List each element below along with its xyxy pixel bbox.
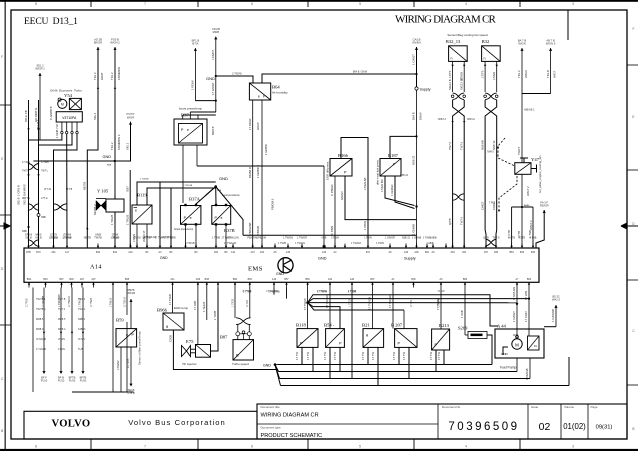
svg-text:1 TRL/B: 1 TRL/B <box>125 215 129 225</box>
svg-text:1 TW/B: 1 TW/B <box>212 237 220 240</box>
svg-text:GND: GND <box>219 176 228 181</box>
svg-text:A45: A45 <box>322 251 327 254</box>
svg-text:17 TW/B: 17 TW/B <box>168 294 172 305</box>
svg-text:sol_valve_engine_cooling_fan: sol_valve_engine_cooling_fan <box>538 155 542 193</box>
svg-text:17 GN: 17 GN <box>247 300 249 307</box>
svg-text:17 TW/LAB: 17 TW/LAB <box>144 236 157 239</box>
wire Y54 pin4 to ECU pin <box>54 134 78 248</box>
svg-text:PB/GRAB: PB/GRAB <box>248 222 252 235</box>
svg-text:17 TW: 17 TW <box>333 351 337 360</box>
svg-text:LT/GN: LT/GN <box>78 338 85 341</box>
svg-text:17 TW/B: 17 TW/B <box>91 298 93 307</box>
svg-text:GN/W: GN/W <box>256 122 260 130</box>
svg-text:TW7 6: TW7 6 <box>459 141 463 150</box>
svg-text:LT/TS: LT/TS <box>480 70 484 78</box>
wire column x130 off page <box>129 122 132 125</box>
wire column x195 off page arrow <box>194 48 197 51</box>
svg-text:B07: B07 <box>370 278 375 281</box>
svg-text:n: n <box>451 57 453 61</box>
svg-text:3: 3 <box>572 444 574 448</box>
twist symbol B32 pair <box>485 93 497 99</box>
svg-text:N3B 22: N3B 22 <box>400 174 409 177</box>
twisted pair symbols mid pair <box>53 204 67 210</box>
svg-text:B7A: B7A <box>36 251 41 254</box>
wire S209 connections <box>464 288 466 336</box>
wire B87 shield to box <box>237 336 239 340</box>
svg-text:7: 7 <box>144 444 146 448</box>
wire B64 supply to Supply node <box>262 74 417 87</box>
svg-text:e: e <box>126 333 128 337</box>
svg-text:e: e <box>187 128 189 132</box>
svg-text:L7T G: L7T G <box>41 197 48 200</box>
wire hub horizontal to fuel pump <box>308 302 517 304</box>
wire B32 pins down <box>484 61 486 92</box>
svg-text:17 CA/N: 17 CA/N <box>524 311 528 322</box>
component B59 off page arrow up <box>129 299 132 302</box>
svg-text:C50B: C50B <box>169 335 173 342</box>
component B32 box <box>482 46 501 62</box>
svg-text:Volvo Bus Corporation: Volvo Bus Corporation <box>128 418 226 427</box>
svg-text:boost press/temp: boost press/temp <box>222 194 240 197</box>
wire bottom right bracket <box>568 357 570 386</box>
svg-text:TW7 0: TW7 0 <box>58 308 66 311</box>
svg-text:1 CTB: 1 CTB <box>508 237 515 240</box>
svg-text:A46: A46 <box>404 251 409 254</box>
svg-text:N6B 13: N6B 13 <box>438 118 447 121</box>
wire pass-through column x352 <box>351 288 353 379</box>
svg-text:B57: B57 <box>284 278 289 281</box>
off-page arrow wire SE1 <box>38 73 41 76</box>
svg-text:n: n <box>484 57 486 61</box>
svg-text:1 AB/B: 1 AB/B <box>429 237 437 240</box>
svg-text:N3B 22: N3B 22 <box>402 237 411 240</box>
component Y47 solenoid tbar <box>520 158 528 163</box>
svg-text:MR/LB: MR/LB <box>127 291 135 295</box>
svg-text:02: 02 <box>539 421 551 433</box>
svg-text:Supply: Supply <box>420 88 431 92</box>
svg-text:BT/A: BT/A <box>192 42 198 46</box>
svg-text:e: e <box>135 209 137 213</box>
svg-text:Sensor oil filter press/Temp: Sensor oil filter press/Temp <box>138 331 142 365</box>
component S209 switch <box>468 332 487 339</box>
svg-text:TW/TB: TW/TB <box>94 237 102 240</box>
svg-text:1 TW/LB: 1 TW/LB <box>185 242 195 245</box>
svg-text:6: 6 <box>251 444 253 448</box>
svg-text:GND: GND <box>263 364 271 368</box>
svg-text:1 TW/GN: 1 TW/GN <box>295 242 305 245</box>
svg-text:Turbo speed: Turbo speed <box>232 362 249 366</box>
component B213 box <box>432 329 450 350</box>
svg-text:LT/GN6: LT/GN6 <box>63 233 72 236</box>
svg-text:B06: B06 <box>527 278 532 281</box>
svg-text:B66: B66 <box>463 278 468 281</box>
svg-text:RD/GR: RD/GR <box>540 204 549 208</box>
svg-text:C 7TGB: C 7TGB <box>243 290 252 293</box>
wire B37B pins <box>215 224 217 248</box>
svg-text:BK/GR: BK/GR <box>94 41 102 45</box>
left centre fold arrow <box>0 223 10 229</box>
component B119 box <box>132 205 152 224</box>
component A44 motor <box>512 339 522 349</box>
sheet bottom border bar <box>0 449 638 451</box>
svg-text:1 CA/GT: 1 CA/GT <box>412 54 416 65</box>
ECU top pin stubs <box>28 244 30 249</box>
wire column x206 <box>206 288 208 321</box>
wire hub branch to B54 pin <box>308 303 340 329</box>
wire column x98 speed signal <box>96 47 99 50</box>
svg-text:1 W/B: 1 W/B <box>460 310 464 318</box>
svg-text:after treat fuel press.: after treat fuel press. <box>376 159 380 185</box>
component E75 injector valve <box>182 346 191 357</box>
svg-text:B53: B53 <box>509 251 514 254</box>
svg-text:WIRING DIAGRAM CR: WIRING DIAGRAM CR <box>395 14 497 26</box>
svg-text:1 TW/B: 1 TW/B <box>278 242 286 245</box>
wire Y54 pin2 to ECU pin <box>66 134 68 248</box>
svg-text:B37A: B37A <box>189 197 201 202</box>
svg-text:LT/GN: LT/GN <box>50 233 57 236</box>
bottom left wire columns <box>43 288 45 372</box>
svg-text:ABB6: ABB6 <box>524 204 530 207</box>
svg-text:TW/7B 0: TW/7B 0 <box>36 308 46 311</box>
svg-text:SIG 2: SIG 2 <box>93 112 97 120</box>
svg-text:B63: B63 <box>43 278 48 281</box>
svg-text:17 GN: 17 GN <box>58 348 65 351</box>
svg-text:B: B <box>632 427 634 431</box>
svg-text:1 TRL/B: 1 TRL/B <box>111 237 120 240</box>
wire horizontal mid link <box>243 234 417 236</box>
svg-text:B54 -: B54 - <box>324 323 335 328</box>
svg-text:W/GN: W/GN <box>518 42 525 46</box>
svg-text:C PB/GR: C PB/GR <box>330 184 334 196</box>
svg-text:70396509: 70396509 <box>448 421 519 433</box>
component B21 box <box>363 329 384 348</box>
svg-text:MRB 0: MRB 0 <box>36 328 44 331</box>
svg-text:1 TW/GN: 1 TW/GN <box>283 237 293 240</box>
svg-text:S0/7: S0/7 <box>125 186 129 192</box>
wire B119 bottom pins to ECU <box>136 224 138 248</box>
svg-text:EECU D13_1: EECU D13_1 <box>24 16 78 27</box>
svg-text:B213: B213 <box>439 323 450 328</box>
svg-text:FU10: FU10 <box>58 379 65 383</box>
ECU connector box A14 EMS <box>24 248 539 282</box>
svg-text:NE/TB: NE/TB <box>83 182 87 190</box>
svg-text:LT/GN4B: LT/GN4B <box>36 338 46 341</box>
svg-text:4: 4 <box>465 2 467 6</box>
svg-text:17 GN/GT: 17 GN/GT <box>211 82 215 95</box>
svg-text:1 TW/B: 1 TW/B <box>213 311 217 320</box>
twist symbol right pair above ECU <box>486 239 497 245</box>
component Y54 connector box <box>56 112 82 122</box>
svg-text:TRL 2: TRL 2 <box>93 72 97 80</box>
svg-text:A10: A10 <box>231 251 236 254</box>
svg-text:GN/B: GN/B <box>95 233 101 236</box>
wire Y47 dashed branch upper <box>498 138 515 166</box>
svg-text:1 PB/N: 1 PB/N <box>364 237 372 240</box>
bottom horizontal y392 <box>72 391 134 393</box>
svg-text:Y54: Y54 <box>64 93 73 98</box>
GND node left horizontal <box>34 160 115 162</box>
svg-text:FU30: FU30 <box>80 379 87 383</box>
svg-text:LT/TS: LT/TS <box>448 70 452 78</box>
component B118 box <box>297 329 318 348</box>
wire B187 top pin to supply wire <box>390 136 417 158</box>
svg-text:8: 8 <box>35 2 37 6</box>
wire GND junction horizontal to B64 <box>216 76 253 83</box>
svg-text:SIG 2: SIG 2 <box>126 142 130 150</box>
svg-text:1 GN/AB: 1 GN/AB <box>412 237 422 240</box>
svg-text:B87: B87 <box>220 335 228 340</box>
svg-text:S4B 7L: S4B 7L <box>78 328 87 331</box>
svg-text:1 TW/GR4B: 1 TW/GR4B <box>59 294 61 307</box>
svg-text:1 7TGB: 1 7TGB <box>232 299 234 307</box>
component B32_13 box <box>449 46 468 62</box>
svg-text:17 TW: 17 TW <box>429 351 433 360</box>
component Y105 valve <box>96 201 106 211</box>
wire B32_13 pins down <box>452 61 454 92</box>
bottom zone dividers <box>90 439 92 451</box>
svg-text:Y 105: Y 105 <box>97 189 109 194</box>
svg-text:1 7TGB: 1 7TGB <box>349 299 351 307</box>
wire pin 286 into bus <box>286 288 288 299</box>
svg-text:17 GN4B: 17 GN4B <box>36 348 46 351</box>
svg-text:1 TW/GR: 1 TW/GR <box>351 242 361 245</box>
svg-text:8: 8 <box>35 444 37 448</box>
svg-text:17 W/GNB: 17 W/GNB <box>43 295 45 307</box>
off page arrow B5 right <box>554 305 557 308</box>
svg-text:TRL 2: TRL 2 <box>110 72 114 80</box>
wire Y54 pin1 to ECU pin A61 <box>29 134 62 248</box>
svg-text:1 GMBR 6: 1 GMBR 6 <box>256 164 260 178</box>
svg-text:GND: GND <box>276 272 284 276</box>
svg-text:17 TW: 17 TW <box>295 351 299 360</box>
svg-text:B64 B GN/W: B64 B GN/W <box>353 71 368 74</box>
svg-text:EMS: EMS <box>248 266 263 273</box>
wire B32 pair crossover to ECU <box>485 100 497 230</box>
svg-text:A19: A19 <box>272 278 277 281</box>
component B64 box <box>249 83 270 100</box>
svg-text:17 TW/GR: 17 TW/GR <box>388 295 392 308</box>
svg-text:B59: B59 <box>116 318 124 323</box>
svg-text:B03: B03 <box>69 278 74 281</box>
svg-text:TL/B: TL/B <box>78 348 83 351</box>
svg-text:N6B AB 2: N6B AB 2 <box>524 109 535 112</box>
svg-text:17 TW: 17 TW <box>371 351 375 360</box>
wire B37 bottom pins to B37A area <box>182 145 184 203</box>
svg-text:Q/TB: Q/TB <box>483 237 489 240</box>
svg-text:SIG13 BB: SIG13 BB <box>459 77 463 90</box>
svg-text:B966: B966 <box>157 308 168 313</box>
svg-text:17 RD/W: 17 RD/W <box>248 118 252 130</box>
svg-text:7: 7 <box>144 2 146 6</box>
svg-text:7W7 L: 7W7 L <box>22 170 30 173</box>
svg-text:C-GNBB B: C-GNBB B <box>49 106 53 120</box>
svg-text:B60: B60 <box>233 278 238 281</box>
svg-text:NE/TB: NE/TB <box>84 237 91 240</box>
svg-text:SIG B OA MR/S: SIG B OA MR/S <box>23 184 27 205</box>
svg-text:1 TW/GR: 1 TW/GR <box>297 237 307 240</box>
svg-text:S209: S209 <box>458 326 468 331</box>
svg-text:GND: GND <box>160 256 168 260</box>
twist symbol mid pair y197 <box>453 194 465 200</box>
wire column x198 to E75 top <box>197 288 199 345</box>
svg-text:GN/GT: GN/GT <box>340 191 344 200</box>
svg-text:NRB 1: NRB 1 <box>78 318 86 321</box>
svg-text:LT7 B: LT7 B <box>66 188 73 191</box>
svg-text:MR/8: MR/8 <box>213 30 220 34</box>
svg-text:boost press/temp: boost press/temp <box>179 106 202 110</box>
svg-text:Supply: Supply <box>404 256 416 260</box>
svg-text:MRB 5: MRB 5 <box>58 318 66 321</box>
twisted pair above ECU left <box>28 240 39 246</box>
svg-text:1 TW/LB: 1 TW/LB <box>110 298 112 307</box>
svg-text:A47: A47 <box>251 251 256 254</box>
wire B32_13 pair crossover to ECU <box>453 100 465 248</box>
svg-text:7WA 5: 7WA 5 <box>517 146 521 155</box>
wire down to Y47 <box>521 135 523 163</box>
svg-text:1 GNB 7L8: 1 GNB 7L8 <box>55 124 59 138</box>
svg-text:A55: A55 <box>494 251 499 254</box>
svg-text:A53: A53 <box>450 251 455 254</box>
wire B37 top pins <box>182 115 184 119</box>
component A44 inner wiring <box>503 347 508 355</box>
svg-text:C PB/N: C PB/N <box>331 237 339 240</box>
svg-text:1 PB/N: 1 PB/N <box>363 221 367 230</box>
svg-text:17 W/GNB: 17 W/GNB <box>266 290 278 293</box>
svg-text:PB/GM: PB/GM <box>256 225 260 235</box>
svg-text:GN/W: GN/W <box>112 233 119 236</box>
svg-text:17 TW/GR: 17 TW/GR <box>69 296 71 307</box>
svg-text:4: 4 <box>465 444 467 448</box>
svg-text:A14: A14 <box>90 264 102 271</box>
svg-text:Volume: Volume <box>564 405 574 409</box>
svg-text:TW7 6: TW7 6 <box>459 216 463 225</box>
svg-text:N6B: N6B <box>107 165 112 167</box>
svg-text:17 W/N: 17 W/N <box>524 291 528 300</box>
svg-text:1 TW/N: 1 TW/N <box>376 242 384 245</box>
svg-text:B32: B32 <box>482 39 490 44</box>
svg-text:C7 47B: C7 47B <box>126 359 130 368</box>
svg-text:B118: B118 <box>296 323 306 328</box>
svg-text:C7d B: C7d B <box>127 391 135 395</box>
svg-text:B166: B166 <box>338 153 349 158</box>
svg-text:PRODUCT SCHEMATIC: PRODUCT SCHEMATIC <box>261 433 323 439</box>
svg-text:SE1 B 1: SE1 B 1 <box>36 119 40 130</box>
component B207 box <box>395 329 417 348</box>
svg-text:GN/W: GN/W <box>419 112 423 120</box>
supply feed off page arrow <box>415 47 418 50</box>
wire Y54 pin3 to ECU pin <box>39 134 73 248</box>
EMS logo circle <box>278 258 293 273</box>
title block outline left cell <box>24 411 257 439</box>
wire B37A bottom pins to ECU <box>185 224 187 248</box>
svg-text:17 TW: 17 TW <box>392 351 396 360</box>
component B37B box <box>212 206 231 225</box>
component B87 box <box>233 340 254 360</box>
svg-text:17 TW: 17 TW <box>437 351 441 360</box>
svg-text:1 TEA B: 1 TEA B <box>202 302 206 312</box>
svg-text:B32_13: B32_13 <box>446 39 461 44</box>
svg-text:A 44: A 44 <box>497 324 507 329</box>
svg-text:A61: A61 <box>51 251 56 254</box>
svg-text:17 TW/LGN: 17 TW/LGN <box>224 242 237 245</box>
svg-text:SIG B 1-OR6 B: SIG B 1-OR6 B <box>17 185 21 205</box>
component A44 inner sensor <box>528 336 540 350</box>
wire hub branch y310 <box>308 303 404 310</box>
svg-text:A07: A07 <box>80 278 85 281</box>
svg-text:E: E <box>632 115 634 119</box>
svg-text:B68: B68 <box>125 278 130 281</box>
component B37 inner sensor <box>179 124 203 144</box>
wire GND bracket over B37A <box>197 165 324 167</box>
svg-text:B42: B42 <box>96 251 101 254</box>
component Y47 valve box <box>515 163 531 175</box>
wire B64 bottom pins to ECU <box>252 100 254 248</box>
sheet left border line <box>5 0 6 451</box>
svg-text:W/GT 2: W/GT 2 <box>526 186 530 196</box>
svg-text:F: F <box>633 27 635 31</box>
svg-text:1 GN/AB: 1 GN/AB <box>412 224 416 235</box>
svg-text:LT/GN: LT/GN <box>58 338 65 341</box>
svg-text:B17: B17 <box>366 251 371 254</box>
svg-text:17 W/S: 17 W/S <box>22 161 30 164</box>
svg-text:W/GT: W/GT <box>553 70 557 78</box>
svg-text:B7B: B7B <box>26 251 31 254</box>
svg-text:N6B: N6B <box>217 190 222 192</box>
wire B119 top bracket <box>137 182 216 205</box>
svg-text:B08: B08 <box>205 278 210 281</box>
twisted pair symbol left pair upper <box>28 164 39 170</box>
svg-text:LT/GN BR: LT/GN BR <box>380 179 384 192</box>
svg-text:GND: GND <box>318 256 327 260</box>
page partition line top right <box>567 10 569 40</box>
title block right section outline <box>257 404 627 439</box>
svg-text:3: 3 <box>572 2 574 6</box>
svg-text:TRL B: TRL B <box>546 70 550 78</box>
svg-text:Oil filt Economiz Turbo: Oil filt Economiz Turbo <box>50 89 82 93</box>
svg-text:N5B 22: N5B 22 <box>412 155 416 165</box>
component B37A box <box>181 206 201 225</box>
svg-text:1 GN/GR: 1 GN/GR <box>385 237 395 240</box>
wire B187 bottom pins <box>385 176 415 206</box>
left zone ticks and letters <box>0 104 11 106</box>
svg-text:7th injector: 7th injector <box>182 362 197 366</box>
svg-text:W/GR: W/GR <box>127 115 134 119</box>
svg-text:CA/GT: CA/GT <box>480 201 484 210</box>
title block vertical dividers <box>437 404 439 439</box>
svg-text:B64 B: B64 B <box>412 112 416 120</box>
svg-text:B6A: B6A <box>27 278 32 281</box>
svg-text:TRL 2: TRL 2 <box>110 142 114 150</box>
svg-text:B59: B59 <box>305 278 310 281</box>
svg-text:B36: B36 <box>411 278 416 281</box>
svg-text:BK/AB D: BK/AB D <box>248 167 252 178</box>
svg-text:Q/TB: Q/TB <box>448 218 452 225</box>
svg-text:TRL 2: TRL 2 <box>517 70 521 78</box>
wire hub net L1 to A44 left entry <box>308 295 498 326</box>
svg-text:A17: A17 <box>65 251 70 254</box>
svg-text:Air humidity: Air humidity <box>272 91 288 95</box>
svg-text:M: M <box>515 342 519 347</box>
svg-text:C PB/N: C PB/N <box>330 226 334 235</box>
svg-text:COMMON: COMMON <box>117 67 121 80</box>
svg-text:A40: A40 <box>350 278 355 281</box>
svg-text:1 CA/GT: 1 CA/GT <box>512 311 516 322</box>
svg-text:e: e <box>190 216 192 220</box>
wire B966 top pin <box>172 288 174 314</box>
svg-text:E: E <box>1 157 3 161</box>
svg-text:GRAT: GRAT <box>100 72 104 80</box>
top zone dividers <box>90 0 92 7</box>
